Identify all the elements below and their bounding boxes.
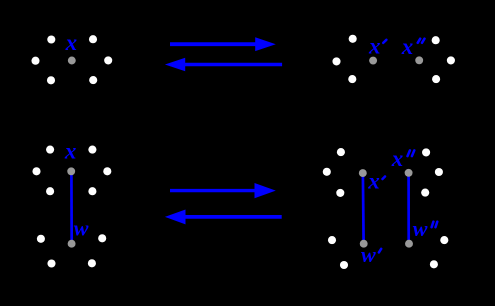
svg-text:w: w bbox=[413, 216, 428, 241]
gray dot: site w' bbox=[360, 240, 368, 248]
svg-text:x: x bbox=[368, 34, 381, 59]
svg-text:x: x bbox=[391, 146, 404, 171]
white dot A6 bbox=[89, 76, 97, 84]
white dot B5 bbox=[447, 56, 455, 64]
gray dot: site x bbox=[68, 57, 76, 65]
white dot B3 bbox=[348, 75, 356, 83]
white dot A2 bbox=[89, 35, 97, 43]
white dot A5 bbox=[47, 76, 55, 84]
svg-text:x: x bbox=[401, 34, 414, 59]
white dot B4 bbox=[432, 36, 440, 44]
svg-text:w: w bbox=[74, 215, 89, 240]
white dot C10 bbox=[88, 259, 96, 267]
white dot D7 bbox=[328, 236, 336, 244]
reverse arrow (bottom) bbox=[165, 210, 282, 225]
forward arrow (bottom) bbox=[170, 183, 276, 198]
white dot A4 bbox=[104, 56, 112, 64]
cluster C: bonded pair x-w (bottom-left) bbox=[32, 139, 111, 268]
cluster A: solvent shell around site x (top-left) bbox=[31, 30, 112, 84]
gray dot: site x' bbox=[359, 169, 367, 177]
white dot A3 bbox=[31, 57, 39, 65]
white dot C1 bbox=[46, 146, 54, 154]
white dot C7 bbox=[37, 235, 45, 243]
white dot C5 bbox=[46, 187, 54, 195]
white dot A1 bbox=[47, 35, 55, 43]
white dot D9 bbox=[440, 236, 448, 244]
svg-text:x: x bbox=[64, 139, 77, 164]
white dot C3 bbox=[32, 167, 40, 175]
bond x'-w' bbox=[362, 175, 365, 242]
gray dot: site w'' bbox=[405, 240, 413, 248]
white dot D2 bbox=[323, 168, 331, 176]
svg-text:x: x bbox=[367, 169, 380, 194]
reverse arrow (top) bbox=[165, 58, 282, 71]
white dot C4 bbox=[103, 167, 111, 175]
gray dot: site x'' bbox=[415, 56, 423, 64]
svg-text:x: x bbox=[65, 30, 78, 55]
svg-text:w: w bbox=[361, 242, 376, 267]
bond x''-w'' bbox=[407, 175, 410, 242]
bond x-w bbox=[70, 173, 73, 242]
gray dot: site x bbox=[67, 167, 75, 175]
white dot D3 bbox=[336, 189, 344, 197]
white dot D4 bbox=[422, 148, 430, 156]
white dot D1 bbox=[337, 148, 345, 156]
white dot D8 bbox=[340, 261, 348, 269]
gray dot: site x'' bbox=[405, 169, 413, 177]
cluster B: split shell with sites x' and x'' (top-right) bbox=[332, 34, 455, 84]
white dot B2 bbox=[332, 57, 340, 65]
white dot C2 bbox=[88, 146, 96, 154]
white dot C8 bbox=[98, 234, 106, 242]
white dot C9 bbox=[47, 259, 55, 267]
white dot B1 bbox=[349, 35, 357, 43]
white dot D5 bbox=[435, 168, 443, 176]
white dot D6 bbox=[421, 189, 429, 197]
forward arrow (top) bbox=[170, 37, 276, 51]
white dot B6 bbox=[432, 75, 440, 83]
white dot C6 bbox=[88, 187, 96, 195]
cluster D: split bonded pairs x'-w' and x''-w'' (bottom-right) bbox=[323, 146, 449, 269]
gray dot: site x' bbox=[369, 57, 377, 65]
white dot D10 bbox=[430, 260, 438, 268]
gray dot: site w bbox=[68, 240, 76, 248]
